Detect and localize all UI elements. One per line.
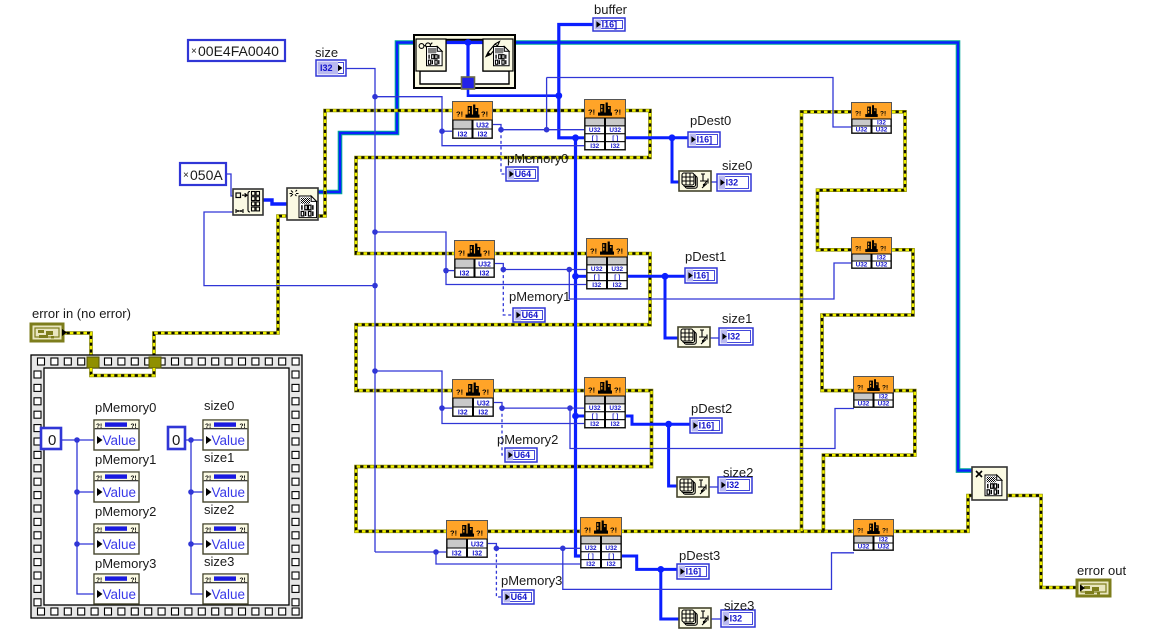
svg-text:I32: I32 [452, 550, 462, 557]
svg-text:U32: U32 [876, 261, 888, 268]
svg-text:U64: U64 [522, 310, 539, 320]
svg-text:U32: U32 [856, 126, 868, 133]
svg-text:U64: U64 [514, 450, 531, 460]
svg-text:I16]: I16] [699, 421, 715, 431]
svg-text:size3: size3 [204, 554, 234, 569]
svg-text:size: size [315, 45, 338, 60]
svg-text:?!: ?! [855, 111, 861, 118]
svg-text:?!: ?! [882, 385, 888, 392]
svg-text:U32: U32 [609, 127, 621, 134]
svg-text:size1: size1 [722, 311, 752, 326]
svg-text:U32: U32 [856, 261, 868, 268]
svg-text:?!: ?! [590, 247, 597, 256]
svg-text:Value: Value [103, 537, 137, 552]
svg-text:?!: ?! [240, 527, 246, 534]
svg-text:U32: U32 [591, 266, 603, 273]
svg-text:I32: I32 [730, 614, 743, 624]
svg-text:I32: I32 [478, 131, 488, 138]
svg-text:[ ]: [ ] [612, 413, 618, 420]
svg-text:?!: ?! [131, 475, 137, 482]
svg-text:U32: U32 [876, 126, 888, 133]
svg-text:error out: error out [1077, 563, 1127, 578]
svg-text:U32: U32 [878, 543, 890, 550]
svg-text:error in (no error): error in (no error) [32, 306, 131, 321]
svg-text:?!: ?! [588, 386, 595, 395]
svg-text:size0: size0 [722, 158, 752, 173]
svg-text:I32: I32 [480, 270, 490, 277]
svg-text:U64: U64 [515, 169, 532, 179]
svg-text:?!: ?! [584, 526, 591, 535]
svg-text:I32: I32 [458, 131, 468, 138]
svg-text:?!: ?! [205, 475, 211, 482]
svg-text:?!: ?! [240, 423, 246, 430]
svg-text:I16]: I16] [694, 271, 710, 281]
svg-text:?!: ?! [483, 249, 490, 258]
svg-text:?!: ?! [588, 108, 595, 117]
svg-text:U32: U32 [585, 545, 597, 552]
svg-text:I32: I32 [590, 143, 599, 150]
svg-text:Value: Value [212, 537, 246, 552]
svg-text:I32: I32 [592, 282, 601, 289]
svg-text:?!: ?! [131, 527, 137, 534]
svg-text:?!: ?! [458, 249, 465, 258]
svg-text:?!: ?! [482, 388, 489, 397]
svg-text:pDest2: pDest2 [691, 401, 732, 416]
svg-text:I32: I32 [726, 178, 739, 188]
svg-text:U32: U32 [589, 127, 601, 134]
svg-text:[ ]: [ ] [614, 274, 620, 281]
svg-text:U32: U32 [858, 400, 870, 407]
svg-text:pDest3: pDest3 [679, 548, 720, 563]
svg-text:I32: I32 [460, 270, 470, 277]
svg-text:[ ]: [ ] [594, 274, 600, 281]
svg-text:?!: ?! [96, 475, 102, 482]
svg-text:0: 0 [172, 432, 180, 449]
svg-text:U64: U64 [511, 592, 528, 602]
svg-text:pMemory3: pMemory3 [501, 573, 562, 588]
svg-text:00E4FA0040: 00E4FA0040 [198, 43, 279, 59]
svg-text:?!: ?! [240, 577, 246, 584]
svg-text:I32: I32 [879, 536, 888, 543]
svg-text:?!: ?! [857, 528, 863, 535]
svg-text:size2: size2 [723, 465, 753, 480]
svg-text:?!: ?! [481, 110, 488, 119]
svg-text:pMemory0: pMemory0 [507, 151, 568, 166]
svg-text:?!: ?! [880, 111, 886, 118]
svg-text:U32: U32 [478, 261, 491, 268]
svg-text:U32: U32 [605, 545, 617, 552]
svg-text:I16]: I16] [686, 567, 702, 577]
svg-text:size0: size0 [204, 398, 234, 413]
svg-text:pMemory2: pMemory2 [497, 432, 558, 447]
svg-text:I32: I32 [611, 421, 620, 428]
svg-text:size1: size1 [204, 450, 234, 465]
svg-text:?!: ?! [610, 526, 617, 535]
svg-text:?!: ?! [456, 110, 463, 119]
svg-text:U32: U32 [476, 122, 489, 129]
svg-text:I32: I32 [613, 282, 622, 289]
svg-text:Value: Value [212, 433, 246, 448]
svg-text:pDest1: pDest1 [685, 249, 726, 264]
svg-text:I32: I32 [877, 119, 886, 126]
svg-text:×: × [183, 170, 189, 181]
svg-text:I32: I32 [611, 143, 620, 150]
svg-text:U32: U32 [878, 400, 890, 407]
svg-text:U32: U32 [477, 400, 490, 407]
svg-text:I32: I32 [607, 561, 616, 568]
svg-text:pMemory0: pMemory0 [95, 400, 156, 415]
svg-text:I32: I32 [877, 254, 886, 261]
svg-text:?!: ?! [96, 423, 102, 430]
svg-text:I32: I32 [478, 409, 488, 416]
svg-text:I32: I32 [590, 421, 599, 428]
svg-text:I32: I32 [727, 480, 740, 490]
svg-text:U32: U32 [858, 543, 870, 550]
svg-text:size2: size2 [204, 502, 234, 517]
svg-text:Value: Value [103, 433, 137, 448]
svg-text:[ ]: [ ] [592, 413, 598, 420]
svg-text:I16]: I16] [697, 135, 713, 145]
svg-text:?!: ?! [205, 423, 211, 430]
svg-text:I16]: I16] [602, 20, 618, 30]
svg-text:Value: Value [212, 587, 246, 602]
svg-text:I32: I32 [586, 561, 595, 568]
svg-text:pMemory1: pMemory1 [95, 452, 156, 467]
svg-text:U32: U32 [611, 266, 623, 273]
svg-text:?!: ?! [616, 247, 623, 256]
svg-text:U32: U32 [471, 541, 484, 548]
svg-text:?!: ?! [476, 529, 483, 538]
svg-text:?!: ?! [614, 108, 621, 117]
svg-text:buffer: buffer [594, 2, 628, 17]
svg-text:Value: Value [103, 587, 137, 602]
svg-text:?!: ?! [456, 388, 463, 397]
svg-text:?!: ?! [880, 246, 886, 253]
svg-text:?!: ?! [96, 527, 102, 534]
svg-text:size3: size3 [724, 598, 754, 613]
svg-text:[ ]: [ ] [608, 553, 614, 560]
svg-text:?!: ?! [131, 577, 137, 584]
svg-text:?!: ?! [96, 577, 102, 584]
svg-text:050A: 050A [190, 167, 223, 183]
svg-text:?!: ?! [131, 423, 137, 430]
svg-text:?!: ?! [450, 529, 457, 538]
svg-text:I32: I32 [320, 63, 333, 73]
svg-text:?!: ?! [857, 385, 863, 392]
svg-text:I32: I32 [879, 393, 888, 400]
svg-text:pDest0: pDest0 [690, 113, 731, 128]
svg-text:pMemory2: pMemory2 [95, 504, 156, 519]
svg-text:U32: U32 [589, 405, 601, 412]
svg-text:pMemory1: pMemory1 [509, 289, 570, 304]
svg-text:[ ]: [ ] [612, 135, 618, 142]
svg-text:?!: ?! [882, 528, 888, 535]
svg-text:U32: U32 [609, 405, 621, 412]
svg-text:I32: I32 [728, 332, 741, 342]
svg-text:Value: Value [212, 485, 246, 500]
svg-text:?!: ?! [855, 246, 861, 253]
svg-text:[ ]: [ ] [592, 135, 598, 142]
svg-text:pMemory3: pMemory3 [95, 556, 156, 571]
svg-text:?!: ?! [205, 577, 211, 584]
svg-text:?!: ?! [240, 475, 246, 482]
svg-text:×: × [191, 46, 197, 57]
svg-text:0: 0 [48, 432, 56, 449]
svg-text:I32: I32 [472, 550, 482, 557]
svg-text:[ ]: [ ] [588, 553, 594, 560]
svg-text:Value: Value [103, 485, 137, 500]
svg-text:I32: I32 [458, 409, 468, 416]
svg-text:?!: ?! [205, 527, 211, 534]
svg-text:?!: ?! [614, 386, 621, 395]
